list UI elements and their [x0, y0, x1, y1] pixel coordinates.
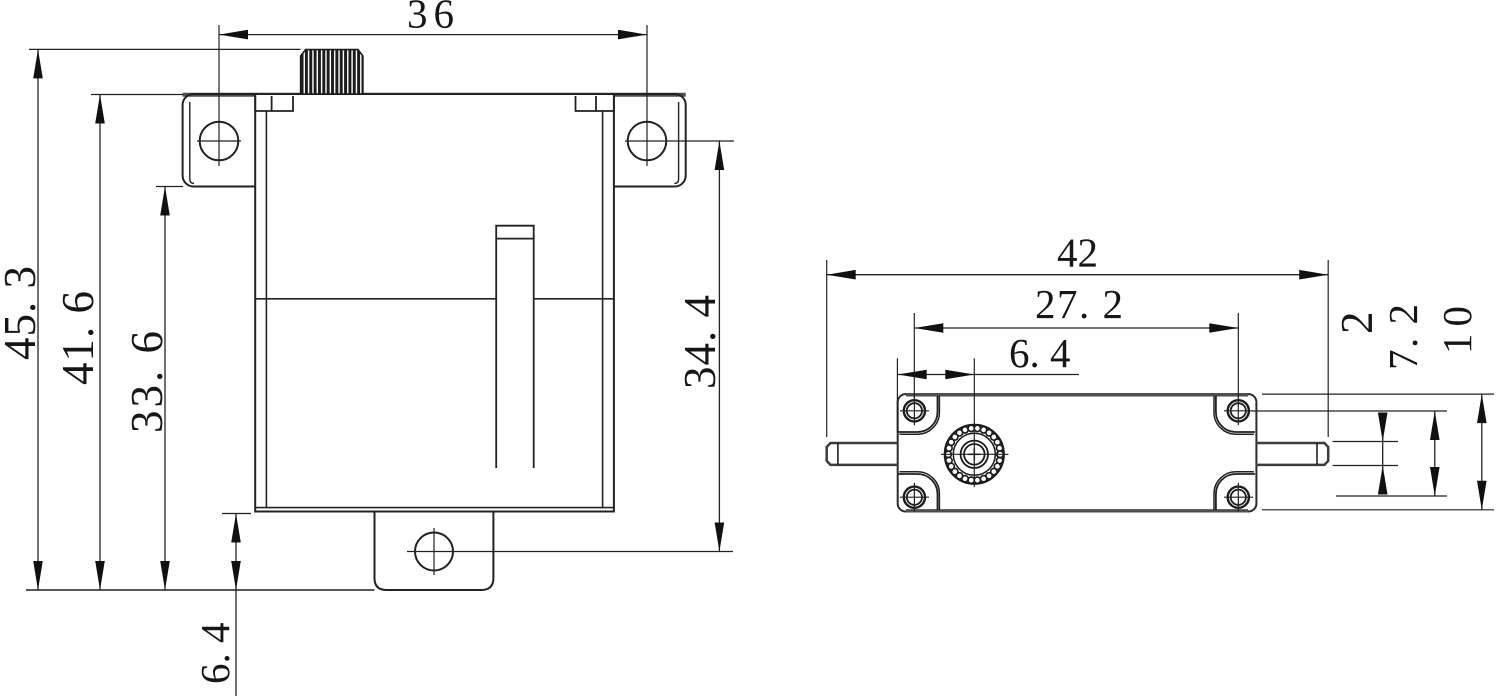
case parting line right segment: [534, 298, 614, 300]
dim 10 extension bottom: [1262, 509, 1494, 511]
svg-text:34. 4: 34. 4: [675, 294, 725, 389]
dim 27.2 dimension line: [914, 327, 1238, 329]
svg-text:36: 36: [407, 0, 460, 37]
svg-text:27. 2: 27. 2: [1035, 281, 1125, 327]
dim 7.2 dimension line: [1434, 411, 1436, 496]
dim 45.3 top extension line: [29, 48, 301, 50]
bottom mounting tab: [375, 512, 494, 591]
tab hole centerline extended to 34.4 dim: [407, 551, 733, 553]
svg-text:41. 6: 41. 6: [53, 290, 103, 385]
internal shaft column: [496, 226, 534, 468]
case parting line left segment: [255, 298, 496, 300]
output gear (top view): [941, 421, 1009, 487]
case body inner left edge: [265, 111, 267, 508]
svg-text:6. 4: 6. 4: [1009, 330, 1071, 376]
dim 36 extension line right: [646, 25, 648, 166]
dim 36 dimension line: [219, 34, 647, 36]
lug bottom-right: [1216, 474, 1255, 510]
dim 36 extension line left: [218, 25, 220, 166]
flange right inner edge line: [674, 102, 678, 184]
dim 6.4 (left view) dimension line: [235, 514, 237, 697]
dim 10 extension top: [1262, 393, 1494, 395]
svg-text:10: 10: [1434, 299, 1480, 354]
dim 42 extension right: [1327, 260, 1329, 437]
dim 10 dimension line: [1481, 394, 1483, 510]
output spline (side view, striped): [301, 50, 363, 94]
dim 27.2 extension left: [913, 313, 915, 398]
right flange screw hole: [628, 122, 667, 161]
lug top-left: [899, 396, 938, 432]
case body inner bottom edge: [255, 507, 614, 509]
top-right notch: [576, 96, 614, 111]
left flange screw hole: [200, 122, 239, 161]
lug top-right: [1216, 396, 1255, 432]
svg-text:6. 4: 6. 4: [192, 623, 238, 685]
bottom tab screw hole: [415, 533, 453, 571]
dim 27.2 extension right: [1237, 313, 1239, 398]
svg-text:42: 42: [1057, 230, 1098, 276]
dim 41.6 top extension line: [91, 94, 183, 96]
lug hole bottom-right: [1224, 483, 1253, 512]
svg-text:33. 6: 33. 6: [122, 328, 172, 433]
dim 7.2 extension bottom: [1336, 495, 1447, 497]
mounting flange outline: [183, 94, 686, 187]
dim 6.4 extension left: [896, 358, 898, 432]
flange left inner edge line: [190, 102, 194, 184]
lug bottom-left: [899, 474, 938, 510]
right ear tab: [1256, 443, 1328, 465]
servo case top edge (thick): [183, 93, 686, 97]
right hole centerline extended to 34.4 dim: [625, 140, 734, 142]
dim 6.4 (top view) dimension line: [898, 374, 1079, 376]
dim 33.6 dimension line: [164, 187, 166, 591]
lug hole top-right: [1224, 396, 1253, 425]
lug hole bottom-left: [900, 483, 929, 512]
dim 45.3 dimension line: [37, 49, 39, 590]
dim 2 dimension line: [1382, 413, 1384, 494]
dim 33.6 top extension line: [156, 186, 183, 188]
left ear tab: [827, 443, 899, 465]
dim 42 dimension line: [827, 274, 1328, 276]
svg-text:2: 2: [1332, 312, 1382, 335]
body top edge thick: [906, 393, 1248, 396]
bottom baseline extension: [26, 589, 375, 591]
top-left notch: [255, 96, 293, 111]
dim 2 extension top: [1333, 441, 1398, 443]
dim 41.6 dimension line: [99, 95, 101, 591]
dim 6.4 extension right (gear centerline): [973, 358, 975, 421]
body outline (top view): [898, 394, 1257, 511]
case body outline: [255, 94, 614, 512]
svg-text:7. 2: 7. 2: [1380, 303, 1426, 371]
dim 6.4 top extension line: [222, 513, 251, 515]
lug hole top-left: [900, 396, 929, 425]
dim 7.2 extension top: [1252, 410, 1447, 412]
body bottom edge thick: [906, 509, 1248, 512]
case body inner right edge: [602, 111, 604, 508]
dim 2 extension bottom: [1333, 465, 1398, 467]
dim 42 extension left: [826, 260, 828, 437]
svg-text:45. 3: 45. 3: [0, 265, 45, 360]
dim 34.4 dimension line: [718, 141, 720, 552]
